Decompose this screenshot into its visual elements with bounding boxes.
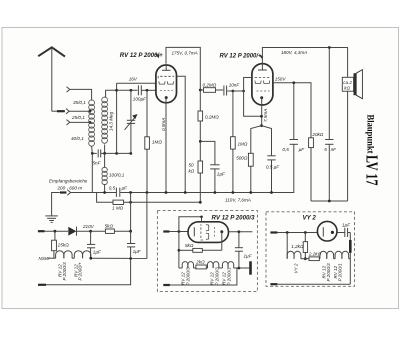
resistor R-500 — [236, 153, 253, 192]
resistor R-1,2k box2 — [291, 233, 307, 261]
diode D1 — [68, 227, 105, 236]
node grid2 — [232, 90, 235, 93]
coil L1 antenna primary — [89, 100, 95, 146]
wire tube1 anode to top line — [166, 47, 200, 90]
terminal E — [67, 190, 70, 195]
resistor R-5k mains — [105, 224, 131, 234]
arrow to tube1 — [155, 54, 160, 59]
svg-text:5kΩ: 5kΩ — [105, 224, 114, 229]
wire tube2 screen 150V — [273, 83, 311, 138]
tube U2 RV12P2000 output — [252, 64, 273, 105]
wire box2 right down — [349, 233, 351, 285]
svg-text:1MΩ: 1MΩ — [152, 140, 162, 145]
svg-text:0,5 µF: 0,5 µF — [266, 165, 280, 170]
capacitor C-0,5uF screen — [282, 83, 305, 193]
wire grid line to 100uF — [117, 89, 138, 91]
ground earth — [45, 216, 57, 223]
svg-text:P 2000/3: P 2000/3 — [186, 267, 191, 286]
bottom return wire — [38, 259, 131, 285]
terminal A1 — [67, 87, 70, 92]
node 1M top — [146, 89, 149, 92]
tube U1 RV12P2000 — [156, 65, 177, 103]
terminal A2 — [66, 109, 69, 114]
capacitor C-1uF box2 — [342, 223, 351, 238]
resistor R-1M horizontal — [112, 200, 200, 211]
resistor R-0,2M horizontal — [200, 83, 216, 93]
wire heater lead tube3 — [221, 232, 223, 251]
ground bar box2 — [349, 240, 352, 253]
tube U4 VY2 — [317, 221, 344, 241]
svg-text:25kΩ: 25kΩ — [57, 243, 69, 248]
dashed box1 — [157, 211, 257, 292]
svg-text:200 - 600 m: 200 - 600 m — [57, 185, 83, 190]
svg-text:5: 5 — [324, 147, 327, 152]
resistor R-20k — [309, 132, 324, 201]
wire Empfang terminal branch — [71, 192, 93, 194]
svg-text:1µF: 1µF — [342, 223, 351, 228]
wire 5nF to node B — [101, 152, 131, 154]
svg-text:40/0,1: 40/0,1 — [71, 136, 84, 141]
wire speaker drop — [347, 48, 349, 202]
wire cathode bracket — [251, 126, 262, 154]
wire node to 1uF cap — [200, 141, 215, 164]
wire 100uF to tube1 — [141, 89, 156, 91]
capacitor C-1uF coupling — [210, 165, 226, 193]
ground bar box1 — [249, 261, 252, 274]
svg-text:50: 50 — [189, 163, 195, 168]
wire A1 to coil L1 top — [70, 89, 92, 100]
resistor R-5k box1 — [179, 243, 222, 252]
svg-text:35/0,1: 35/0,1 — [73, 100, 86, 105]
svg-text:100/0,1: 100/0,1 — [109, 173, 125, 178]
svg-text:P 2000/3: P 2000/3 — [215, 267, 220, 286]
svg-text:P 2000/1: P 2000/1 — [338, 263, 343, 282]
node anode RC — [199, 89, 202, 92]
arrow to tube2 — [259, 55, 263, 60]
terminal A3 — [67, 120, 70, 125]
svg-text:100µF: 100µF — [133, 97, 147, 102]
wire L2bottom to L3 — [104, 153, 106, 167]
wire antenna to terminal A2 — [52, 110, 65, 112]
capacitor 5nF — [93, 149, 102, 165]
box2 terminal top — [270, 231, 277, 233]
main bus 110V — [92, 193, 293, 203]
svg-text:5nF: 5nF — [93, 161, 102, 166]
svg-text:14,3 Meg: 14,3 Meg — [109, 111, 114, 131]
svg-text:5kΩ: 5kΩ — [185, 243, 194, 248]
common vertical rail — [130, 193, 132, 232]
resistor R-0,2M vertical — [198, 90, 219, 141]
wire tube2 grid path — [244, 78, 262, 117]
svg-text:20kΩ: 20kΩ — [311, 132, 323, 137]
wire L2 top to grid line — [105, 90, 117, 97]
wire to ground — [52, 193, 60, 216]
coil L3 100/0,1 — [102, 167, 107, 185]
svg-text:7,5mA: 7,5mA — [263, 109, 268, 122]
wire 16V line to tube1 — [117, 82, 156, 84]
variable capacitor C-var — [125, 90, 138, 153]
node 50k top — [199, 140, 202, 143]
heater line mains — [48, 251, 147, 260]
node cathode — [260, 115, 263, 118]
svg-text:180V, 4,3mA: 180V, 4,3mA — [281, 50, 307, 55]
node speaker feed — [328, 46, 331, 49]
svg-text:P 2000/3: P 2000/3 — [62, 262, 67, 281]
capacitor C-1uF box1 — [229, 230, 253, 268]
heater row box1 — [179, 259, 249, 269]
svg-text:1µF: 1µF — [217, 172, 226, 177]
svg-text:150V: 150V — [275, 77, 287, 82]
node tap2 — [89, 121, 92, 124]
wire A3 to coil tap2 — [70, 121, 91, 123]
node 16V riser bottom — [115, 152, 118, 155]
svg-text:VY 2: VY 2 — [294, 263, 299, 273]
wire 5nF junction to bus — [91, 153, 93, 192]
svg-text:0,5: 0,5 — [109, 185, 116, 190]
svg-text:0,9mA: 0,9mA — [161, 118, 166, 131]
wire tube2 anode top — [262, 48, 348, 64]
resistor R-1M (grid tube2) — [231, 91, 248, 193]
svg-text:1,2kΩ: 1,2kΩ — [291, 244, 304, 249]
wire tube1 heater to bus — [165, 98, 167, 193]
capacitor C-0,5uF bus series — [109, 185, 128, 197]
capacitor C-1uF mains2 — [127, 231, 142, 258]
svg-text:210V: 210V — [82, 224, 95, 229]
svg-text:1MΩ: 1MΩ — [238, 142, 248, 147]
svg-text:Blaupunkt: Blaupunkt — [364, 115, 375, 155]
node grid line / riser — [115, 89, 118, 92]
capacitor C-10nF — [216, 82, 241, 95]
node tap1 — [89, 110, 92, 113]
svg-text:ca.2: ca.2 — [343, 80, 352, 85]
node L2 bottom — [103, 152, 106, 155]
svg-text:kΩ: kΩ — [344, 86, 350, 91]
capacitor C-1uF mains1 — [87, 231, 102, 258]
box2 bottom terminal — [270, 283, 350, 285]
resistor R-25k — [52, 231, 70, 258]
svg-text:VY 2: VY 2 — [303, 215, 317, 222]
dashed box2 VY2 — [266, 212, 355, 286]
node 0,5uF right top — [292, 81, 295, 84]
svg-text:P 2000/+: P 2000/+ — [78, 262, 83, 281]
svg-text:0,2MΩ: 0,2MΩ — [203, 83, 217, 88]
svg-text:16V: 16V — [129, 77, 138, 82]
svg-text:0,5: 0,5 — [282, 147, 289, 152]
antenna — [38, 47, 65, 111]
speaker — [354, 70, 363, 99]
speaker transformer box — [342, 77, 353, 91]
node 5nF left — [91, 152, 94, 155]
wire 16V riser — [116, 83, 118, 153]
svg-text:25/0,1: 25/0,1 — [71, 115, 85, 120]
node B varcap bottom — [129, 152, 132, 155]
wire tube2 cathode down — [261, 98, 263, 126]
box1 bottom terminal — [163, 268, 237, 285]
main line box2 — [277, 232, 317, 234]
wire terminal to tube3 — [169, 231, 188, 233]
svg-text:10nF: 10nF — [229, 82, 241, 87]
wire 1M-line — [97, 193, 113, 203]
tube U3 horizontal — [188, 222, 229, 243]
svg-text:1 MΩ: 1 MΩ — [112, 206, 124, 211]
wire tube1 right lead down to bus — [177, 76, 186, 192]
wire grid top box1 — [179, 217, 202, 232]
wire x178 down — [178, 232, 180, 269]
svg-text:RV 12 P 2000/3: RV 12 P 2000/3 — [212, 214, 256, 221]
capacitor C-0,5uF cathode — [266, 156, 280, 193]
svg-text:1µF: 1µF — [93, 249, 102, 254]
svg-text:110V, 7,6mA: 110V, 7,6mA — [225, 198, 251, 203]
resistor R-50k — [189, 141, 203, 202]
wire L3 bottom to bus — [104, 184, 106, 193]
coil L2 secondary — [102, 97, 108, 143]
svg-text:P 2000/3: P 2000/3 — [326, 263, 331, 282]
svg-text:LV 17: LV 17 — [363, 155, 382, 186]
heater row box2 — [287, 233, 350, 261]
mains 210V line — [38, 230, 68, 233]
wire L2 bottom join — [104, 145, 106, 154]
svg-text:175V, 0,7mA: 175V, 0,7mA — [172, 51, 198, 56]
capacitor 100uF — [133, 85, 147, 101]
wire A2 to coil tap — [69, 110, 90, 112]
svg-text:kΩ: kΩ — [189, 169, 195, 174]
svg-text:Empfangsbereiche: Empfangsbereiche — [49, 179, 88, 184]
svg-text:500Ω: 500Ω — [236, 156, 248, 161]
svg-text:P 2000/1: P 2000/1 — [227, 267, 232, 286]
resistor R-1M (grid leak tube1) — [145, 90, 163, 192]
wire L1 bottom to 5nF — [92, 146, 97, 153]
svg-text:RV 12 P 2000/+: RV 12 P 2000/+ — [220, 53, 262, 60]
svg-text:2kΩ: 2kΩ — [195, 259, 205, 264]
capacitor C-5nF output — [324, 48, 337, 202]
node varcap top — [130, 89, 133, 92]
wire speaker return line — [311, 200, 348, 202]
svg-text:1µF: 1µF — [244, 254, 253, 259]
bus junction dots — [103, 191, 106, 194]
wire to grid vertical — [233, 90, 244, 92]
box1 terminal top — [163, 230, 169, 232]
svg-text:0,2MΩ: 0,2MΩ — [205, 114, 219, 119]
svg-text:1µF: 1µF — [133, 249, 142, 254]
